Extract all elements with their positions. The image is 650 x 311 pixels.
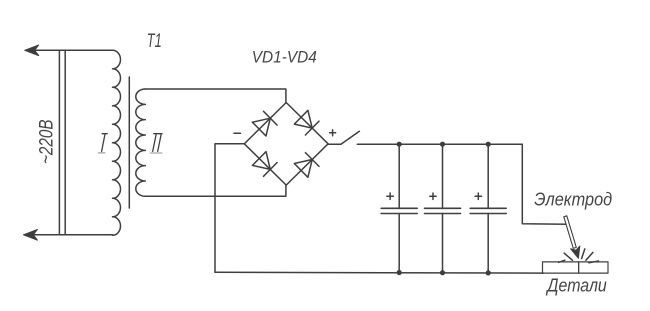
node cap3 top (486, 142, 491, 147)
capacitor C1 (381, 144, 417, 272)
wire top rail to electrode (522, 144, 567, 224)
diode VD2 (294, 110, 319, 135)
wire secondary top to bridge (145, 89, 286, 103)
node cap1 bottom (397, 270, 402, 275)
wire mains pair line B (64, 50, 66, 235)
transformer T1 secondary winding II (136, 89, 146, 196)
arrow mains bottom (23, 230, 37, 241)
capacitor C2 (425, 144, 461, 273)
label plus (330, 130, 336, 136)
wire secondary bottom to bridge (145, 185, 286, 196)
diode bridge frame (244, 103, 328, 186)
wire top rail (357, 143, 522, 145)
wire mains top (26, 49, 113, 51)
workpiece part 2 (579, 262, 608, 273)
wire bridge right to switch (328, 143, 341, 145)
electrode arrowhead (571, 246, 580, 259)
label minus (234, 132, 241, 134)
electrode shaft (564, 216, 577, 249)
spark left-up (564, 253, 572, 260)
arrow mains top (25, 45, 39, 56)
spark up-right steep (582, 249, 585, 259)
svg-text:~220В: ~220В (36, 119, 57, 164)
diode VD3 (252, 152, 277, 177)
node cap1 top (397, 142, 402, 147)
svg-text:Детали: Детали (546, 275, 607, 295)
spark right (589, 261, 598, 263)
spark left (559, 260, 565, 262)
spark up-right (586, 252, 593, 260)
label II (150, 134, 162, 153)
switch blade (341, 131, 360, 144)
diode VD1 (252, 111, 277, 136)
transformer T1 primary winding I (113, 50, 121, 235)
svg-text:T1: T1 (147, 31, 162, 52)
wire mains pair line A (58, 50, 60, 235)
transformer core (128, 77, 130, 208)
workpiece part 1 (543, 262, 579, 273)
wire mains bottom (24, 234, 112, 236)
node cap2 bottom (440, 270, 445, 275)
wire bridge left to bottom rail (215, 144, 244, 272)
label I (99, 134, 108, 153)
node cap3 bottom (486, 270, 491, 275)
wire bottom rail (215, 271, 544, 274)
svg-text:Электрод: Электрод (534, 189, 612, 209)
diode VD4 (294, 153, 319, 178)
svg-text:VD1-VD4: VD1-VD4 (252, 47, 317, 66)
capacitor C3 (470, 144, 506, 273)
node cap2 top (440, 142, 445, 147)
